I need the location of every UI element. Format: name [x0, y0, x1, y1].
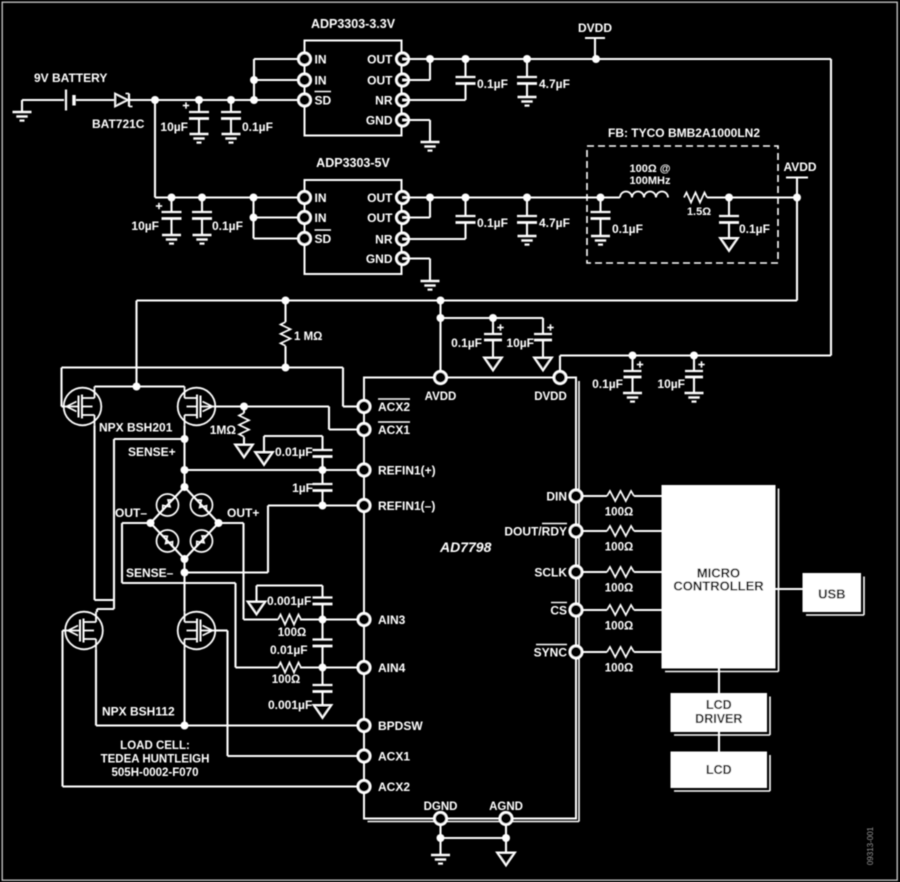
svg-text:100Ω: 100Ω	[605, 507, 633, 519]
svg-text:SYNC: SYNC	[534, 645, 568, 659]
svg-text:NR: NR	[375, 93, 393, 107]
svg-text:100Ω: 100Ω	[605, 621, 633, 633]
svg-text:4.7µF: 4.7µF	[539, 216, 570, 230]
svg-text:1 MΩ: 1 MΩ	[294, 331, 322, 343]
svg-text:OUT+: OUT+	[227, 506, 259, 520]
svg-text:SCLK: SCLK	[534, 565, 567, 579]
svg-text:SENSE+: SENSE+	[128, 445, 176, 459]
svg-text:SD: SD	[315, 93, 332, 107]
svg-text:ACX2: ACX2	[378, 780, 410, 794]
svg-text:REFIN1(+): REFIN1(+)	[378, 463, 436, 477]
svg-text:ACX1: ACX1	[378, 749, 410, 763]
svg-text:100Ω @: 100Ω @	[630, 163, 671, 175]
svg-text:LOAD CELL:: LOAD CELL:	[120, 740, 190, 752]
svg-text:OUT: OUT	[367, 73, 393, 87]
svg-text:BAT721C: BAT721C	[92, 117, 145, 131]
svg-text:NR: NR	[375, 232, 393, 246]
svg-text:100Ω: 100Ω	[272, 674, 300, 686]
svg-text:NPX BSH112: NPX BSH112	[102, 705, 175, 719]
svg-text:10µF: 10µF	[131, 219, 159, 233]
svg-text:IN: IN	[315, 52, 327, 66]
svg-text:DOUT/RDY: DOUT/RDY	[504, 524, 567, 538]
svg-text:0.1µF: 0.1µF	[212, 219, 243, 233]
svg-text:AIN4: AIN4	[378, 661, 406, 675]
svg-text:0.1µF: 0.1µF	[739, 222, 770, 236]
svg-text:10µF: 10µF	[657, 377, 685, 391]
svg-text:1µF: 1µF	[292, 481, 313, 495]
svg-text:DVDD: DVDD	[534, 391, 567, 403]
svg-text:0.1µF: 0.1µF	[592, 377, 623, 391]
svg-text:4.7µF: 4.7µF	[539, 77, 570, 91]
svg-text:SENSE–: SENSE–	[126, 566, 174, 580]
svg-text:ADP3303-5V: ADP3303-5V	[316, 156, 390, 170]
svg-text:AVDD: AVDD	[783, 160, 816, 174]
svg-text:0.1µF: 0.1µF	[451, 336, 482, 350]
svg-text:0.01µF: 0.01µF	[275, 445, 313, 459]
svg-text:AGND: AGND	[489, 801, 523, 813]
svg-text:0.1µF: 0.1µF	[612, 222, 643, 236]
svg-text:0.1µF: 0.1µF	[477, 77, 508, 91]
svg-text:AD7798: AD7798	[439, 539, 492, 555]
svg-text:REFIN1(–): REFIN1(–)	[378, 499, 435, 513]
svg-text:OUT: OUT	[367, 211, 393, 225]
svg-text:10µF: 10µF	[160, 120, 188, 134]
svg-text:DRIVER: DRIVER	[695, 712, 742, 726]
svg-text:NPX BSH201: NPX BSH201	[99, 421, 173, 435]
svg-text:GND: GND	[366, 113, 393, 127]
svg-text:TEDEA HUNTLEIGH: TEDEA HUNTLEIGH	[101, 754, 210, 766]
svg-text:IN: IN	[315, 211, 327, 225]
svg-text:ACX2: ACX2	[378, 400, 410, 414]
svg-text:100MHz: 100MHz	[630, 175, 671, 187]
svg-text:0.01µF: 0.01µF	[270, 643, 308, 657]
svg-text:100Ω: 100Ω	[605, 663, 633, 675]
svg-text:LCD: LCD	[706, 763, 732, 777]
svg-text:DVDD: DVDD	[578, 21, 612, 35]
svg-text:100Ω: 100Ω	[605, 542, 633, 554]
svg-text:DGND: DGND	[424, 801, 458, 813]
svg-text:USB: USB	[818, 587, 845, 602]
svg-text:ACX1: ACX1	[378, 423, 410, 437]
svg-text:09313-001: 09313-001	[866, 826, 875, 865]
svg-text:9V BATTERY: 9V BATTERY	[34, 71, 107, 85]
svg-text:1MΩ: 1MΩ	[210, 423, 237, 437]
svg-text:1.5Ω: 1.5Ω	[687, 206, 711, 218]
svg-text:0.1µF: 0.1µF	[477, 216, 508, 230]
svg-text:0.1µF: 0.1µF	[242, 120, 273, 134]
svg-text:AVDD: AVDD	[425, 391, 457, 403]
svg-text:10µF: 10µF	[506, 336, 534, 350]
svg-text:0.001µF: 0.001µF	[268, 698, 312, 712]
svg-text:IN: IN	[315, 73, 327, 87]
svg-text:505H-0002-F070: 505H-0002-F070	[112, 767, 199, 779]
svg-text:SD: SD	[315, 232, 332, 246]
svg-text:ADP3303-3.3V: ADP3303-3.3V	[311, 17, 396, 31]
svg-text:CONTROLLER: CONTROLLER	[673, 579, 764, 594]
svg-text:100Ω: 100Ω	[605, 583, 633, 595]
svg-text:OUT: OUT	[367, 191, 393, 205]
svg-text:LCD: LCD	[706, 698, 732, 712]
svg-text:DIN: DIN	[546, 489, 567, 503]
svg-text:BPDSW: BPDSW	[378, 719, 423, 733]
svg-text:0.001µF: 0.001µF	[267, 594, 311, 608]
svg-text:GND: GND	[366, 252, 393, 266]
svg-text:CS: CS	[550, 603, 567, 617]
svg-text:IN: IN	[315, 191, 327, 205]
svg-text:OUT: OUT	[367, 52, 393, 66]
svg-text:100Ω: 100Ω	[278, 627, 306, 639]
svg-text:OUT–: OUT–	[115, 506, 147, 520]
svg-text:AIN3: AIN3	[378, 613, 406, 627]
svg-text:FB: TYCO BMB2A1000LN2: FB: TYCO BMB2A1000LN2	[608, 126, 760, 140]
